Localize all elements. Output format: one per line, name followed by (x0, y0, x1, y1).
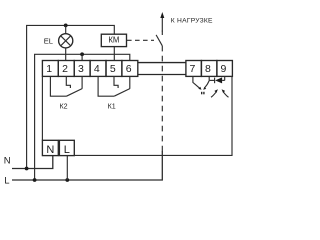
photodiode stub to terminal 9 (224, 76, 226, 80)
node junction t3 drop (80, 52, 84, 56)
photodiode cathode bar (214, 78, 216, 84)
wire arrow stem to load (161, 17, 163, 32)
wire N bottom bus (12, 156, 53, 169)
node junction L riser (33, 178, 37, 182)
wire L bottom bus (12, 151, 162, 180)
wire dashed above contact (161, 29, 163, 36)
wire dashed below contact (161, 46, 163, 152)
relay contact K2 common leg from terminal 1 (50, 76, 66, 96)
photosensor gas ticks (201, 92, 203, 95)
relay contact K2 blade (67, 89, 83, 97)
relay contact K1 blade (114, 89, 130, 97)
svg-text:6: 6 (126, 63, 132, 75)
light arrow right (224, 92, 229, 97)
photodiode triangle (215, 77, 222, 83)
wire lamp riser upper (65, 25, 67, 34)
photodiode stub from terminal 8 (208, 76, 210, 80)
svg-text:2: 2 (62, 63, 68, 75)
terminal block middle belt (138, 62, 186, 64)
wire sensor return bottom (74, 76, 232, 155)
svg-text:L: L (64, 144, 70, 156)
svg-text:К НАГРУЗКЕ: К НАГРУЗКЕ (171, 18, 213, 25)
svg-text:L: L (4, 176, 9, 187)
svg-text:5: 5 (110, 63, 116, 75)
svg-text:8: 8 (205, 63, 211, 75)
svg-text:К1: К1 (108, 102, 116, 110)
node junction lamp-top (64, 24, 68, 28)
photosensor right arm from terminal 8 (205, 81, 209, 88)
lamp EL (59, 34, 73, 48)
svg-text:КМ: КМ (108, 35, 119, 44)
svg-text:9: 9 (221, 63, 227, 75)
wire KM riser to terminal 5 (113, 47, 115, 61)
svg-text:1: 1 (46, 63, 52, 75)
light arrow left (211, 92, 216, 97)
photodiode wire right (222, 79, 225, 81)
wire L box stub (66, 156, 68, 180)
mechanical link KM dashed (127, 39, 154, 41)
relay contact K1 common leg from terminal 4 (98, 76, 114, 96)
svg-text:N: N (4, 156, 11, 167)
node junction L box stub (65, 178, 69, 182)
svg-text:4: 4 (94, 63, 100, 75)
wire lamp riser lower to terminal 2 (65, 48, 67, 61)
svg-text:N: N (46, 144, 54, 156)
svg-text:К2: К2 (60, 102, 68, 110)
relay contact K2 open hook terminal 2 (66, 76, 70, 88)
photosensor right arrowhead (203, 87, 206, 90)
arrowhead to load (160, 12, 164, 18)
photosensor left arrowhead (198, 87, 201, 90)
svg-text:3: 3 (78, 63, 84, 75)
contactor coil KM (101, 34, 126, 46)
wire N top bus from left riser to KM (27, 25, 115, 168)
node junction N riser (25, 167, 29, 171)
relay contact K1 open hook terminal 5 (114, 76, 118, 88)
terminal block squares 7-9 (186, 61, 233, 77)
photosensor left arm from terminal 7 (193, 76, 200, 88)
svg-text:EL: EL (44, 37, 53, 46)
terminal box L (59, 140, 74, 155)
photodiode wire left (209, 79, 214, 81)
wire L riser left (35, 54, 130, 180)
svg-text:7: 7 (190, 63, 196, 75)
terminal block squares 1-6 (42, 61, 137, 77)
wire drop to terminal 3 (81, 54, 83, 60)
relay contact K2 fixed stub terminal 3 (81, 76, 83, 88)
contact KM blade (156, 35, 162, 46)
wire terminal1 to N box (41, 76, 43, 140)
terminal box N (42, 140, 58, 155)
relay contact K1 fixed stub terminal 6 (129, 76, 131, 88)
